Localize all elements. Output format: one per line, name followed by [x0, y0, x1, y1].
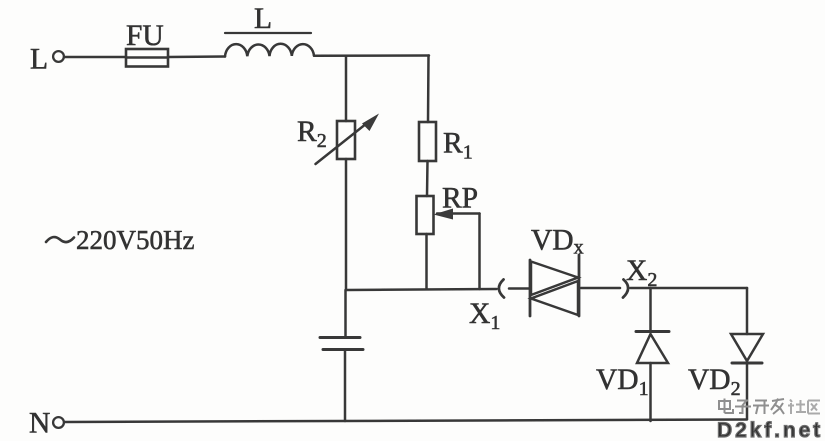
diode VD1	[636, 332, 669, 364]
wire X1 to diac	[509, 287, 529, 290]
mid rail wire	[346, 289, 497, 290]
connector X2	[623, 280, 628, 298]
diac VDx	[530, 255, 579, 316]
wire L terminal to fuse	[64, 56, 126, 59]
svg-text:N: N	[29, 408, 50, 440]
svg-text:RP: RP	[442, 183, 478, 215]
wire corner down to R1	[427, 56, 430, 123]
wire X2 to VD2 corner	[631, 287, 748, 290]
svg-text:L: L	[254, 3, 272, 35]
wire diac to X2	[581, 287, 620, 290]
wire inductor to corner	[314, 54, 429, 57]
wire VD2 to bottom rail	[746, 363, 749, 419]
svg-text:VD2: VD2	[688, 364, 741, 400]
resistor R2 (variable)	[337, 121, 355, 159]
wire RP to mid rail	[425, 234, 428, 289]
diode VD2	[731, 334, 763, 363]
inductor L	[225, 44, 314, 57]
svg-text:FU: FU	[126, 20, 164, 52]
fuse FU	[126, 49, 168, 67]
label ~220V50Hz tilde	[46, 237, 74, 242]
resistor R1	[419, 122, 436, 161]
bottom rail wire	[64, 420, 747, 423]
svg-text:R2: R2	[297, 116, 327, 152]
wire fuse to inductor	[168, 55, 225, 58]
wire X2 rail to VD1	[649, 288, 652, 331]
watermark 电子开发社区	[719, 399, 820, 415]
svg-text:X1: X1	[469, 298, 500, 334]
svg-text:X2: X2	[626, 255, 657, 291]
wire junction to R2	[345, 56, 348, 121]
wire R2 to mid rail	[345, 159, 348, 290]
potentiometer RP	[417, 196, 434, 234]
connector X1	[499, 280, 504, 298]
svg-text:L: L	[30, 44, 48, 76]
svg-text:VD1: VD1	[596, 364, 649, 400]
svg-text:D2kf.net: D2kf.net	[717, 419, 823, 441]
inductor overline	[225, 32, 311, 34]
wire corner down to VD2	[746, 288, 749, 334]
terminal N	[53, 417, 64, 428]
wire R1 to RP	[426, 161, 429, 196]
svg-text:VDx: VDx	[531, 225, 584, 259]
arrow on R2	[316, 114, 380, 165]
wire VD1 to bottom rail	[649, 363, 652, 421]
capacitor C	[320, 290, 363, 421]
svg-text:R1: R1	[443, 128, 473, 164]
terminal L	[53, 51, 64, 62]
svg-text:220V50Hz: 220V50Hz	[76, 225, 194, 255]
wiper arrow of RP	[434, 209, 480, 290]
